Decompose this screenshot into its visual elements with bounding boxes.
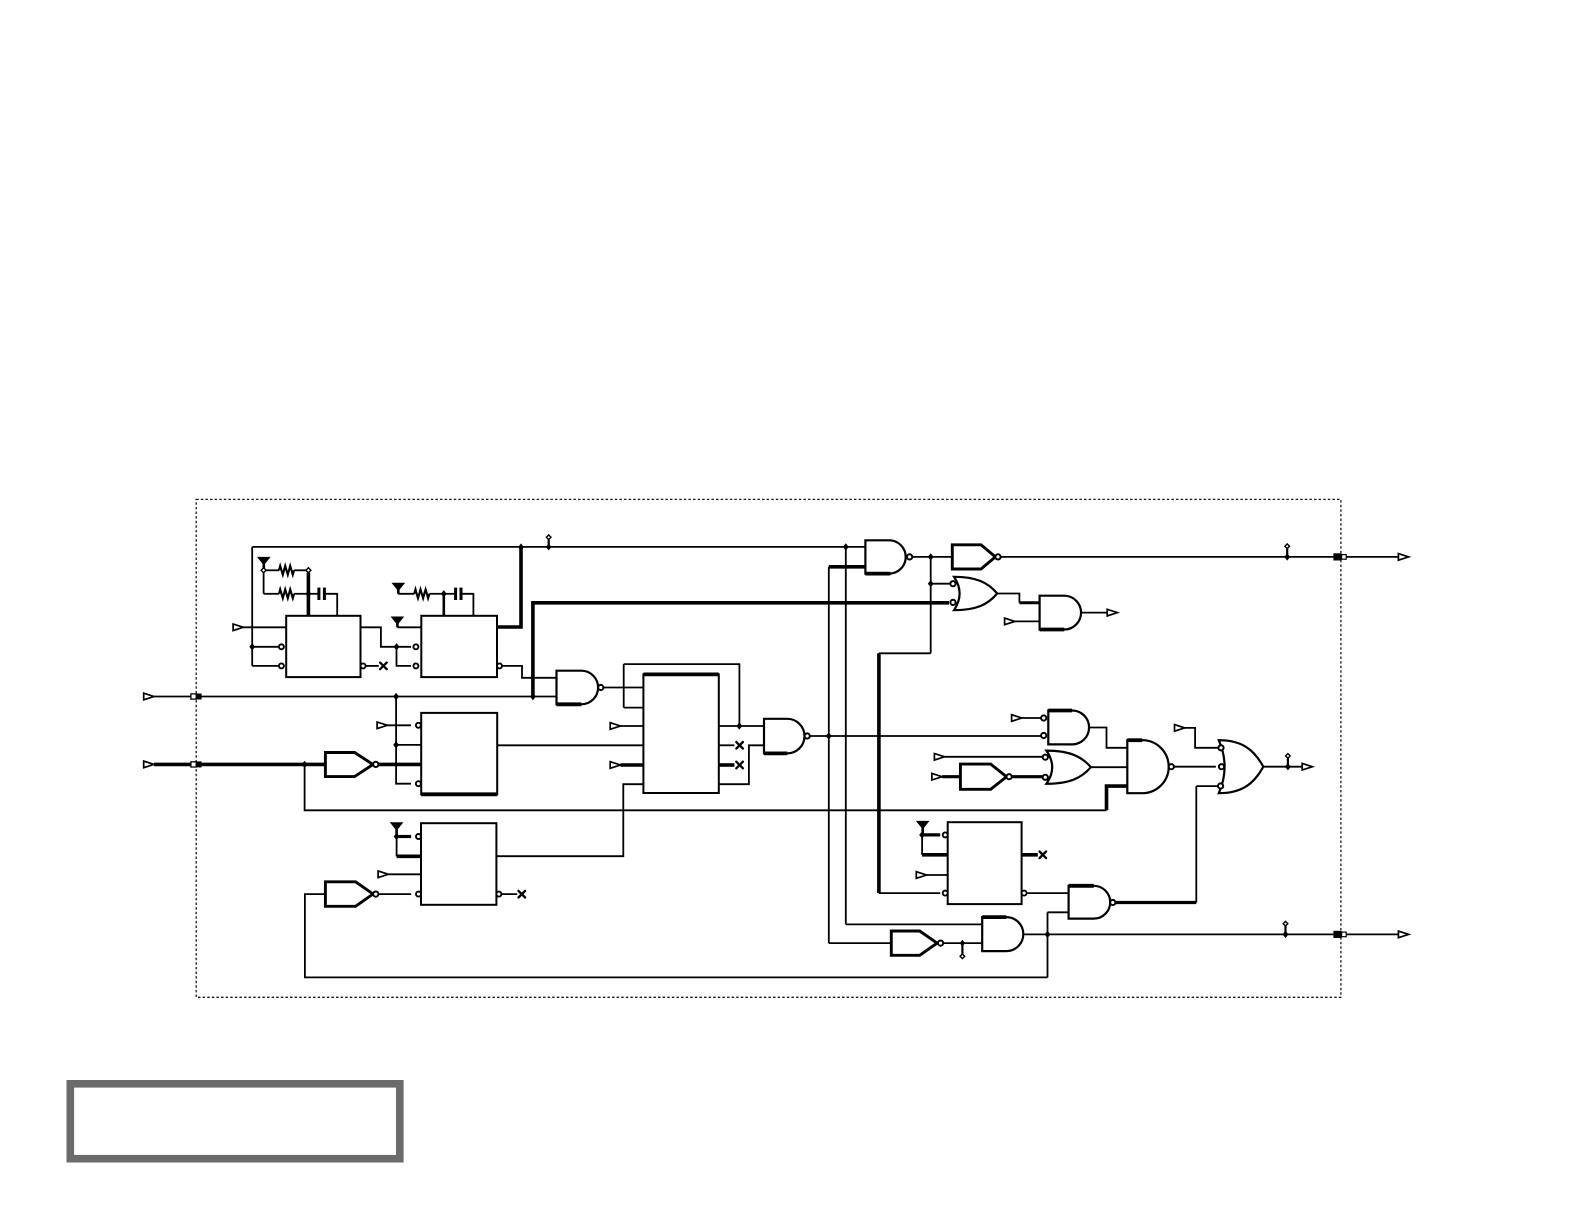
buffer TB1 on net B — [325, 753, 373, 777]
bubble NOR2 in1 — [1043, 755, 1048, 760]
or OR3 body — [1219, 740, 1264, 793]
wire arrow to U5 clk — [388, 873, 421, 875]
junction net A at x533 — [530, 693, 536, 700]
wire vertical C (thick) — [877, 653, 881, 893]
nand G2 body — [865, 540, 905, 573]
wire G4 out to N5 in1 — [1089, 728, 1127, 748]
output arrow top right — [1398, 554, 1408, 561]
and A1 body — [1040, 596, 1081, 630]
node pin right of R1 — [306, 568, 311, 573]
pin bubble U3 in1 — [416, 723, 421, 728]
wire top output outside — [1346, 556, 1398, 558]
junction U1 Q split — [394, 643, 400, 650]
junction output stub top — [1284, 553, 1290, 560]
wire U4 out-x2 (thick) — [719, 763, 735, 767]
wire arrow to U3 pin1 — [387, 724, 411, 726]
output arrow middle right — [1302, 763, 1312, 770]
wire U3 output to U4 — [497, 744, 643, 746]
buffer TB5 — [325, 882, 373, 907]
nor NOR1 body — [954, 577, 997, 610]
wire bottom output outside — [1346, 933, 1398, 935]
input arrow net A — [144, 693, 154, 700]
bubble N6 output — [1110, 900, 1115, 905]
capacitor C1 — [319, 588, 325, 600]
wire G2 net jog — [879, 652, 931, 654]
wire R3 left lead — [398, 593, 414, 595]
wire net A riser to thick bus (thick) — [533, 603, 949, 697]
input arrow U6 clock — [916, 872, 926, 879]
wire U4 out-x1 — [719, 744, 735, 746]
no-connect x U5 out2 — [519, 891, 526, 898]
wire R1 right lead — [294, 569, 306, 571]
boundary pin top output — [1333, 553, 1346, 560]
schematic boundary (dashed) — [196, 499, 1341, 997]
input arrow TB3 — [932, 773, 942, 780]
wire feedback net — [305, 894, 1048, 977]
wire U5 output rise to U4 pin5 — [496, 784, 643, 856]
wire vertical B to A2 in1 — [846, 923, 982, 925]
output arrow A1 — [1107, 609, 1117, 616]
junction net B split — [302, 761, 308, 768]
wire U4 wrap top — [624, 664, 740, 726]
wire NOR2 out to N5 in2 — [1091, 766, 1127, 768]
input arrow net B — [144, 761, 154, 768]
input arrow U5 clock — [378, 871, 388, 878]
bubble N5 output — [1169, 764, 1174, 769]
no-connect x U1 out2 — [380, 663, 387, 670]
wire to U5 pin2 (thick) — [397, 854, 421, 858]
wire R2 right lead — [294, 593, 308, 595]
wire U6 Qbar to N6 in1 — [1027, 892, 1069, 894]
junction G2 out to NOR1 — [928, 580, 934, 587]
wire R1 left lead — [266, 569, 279, 571]
wire net B outside (thick) — [154, 763, 191, 767]
wire power drop to U6 pin2 — [921, 835, 923, 855]
net stub on A2 in2 — [960, 940, 965, 959]
pin bubble U5 in1 — [416, 834, 421, 839]
wire A1 output — [1081, 612, 1108, 614]
wire U2 Q up to top net (thick) — [497, 547, 521, 627]
power symbol for R1 — [258, 557, 270, 570]
wire U4 out4 to G3 in2 — [719, 745, 764, 784]
power symbol U5 — [391, 823, 403, 837]
wire net B rise to N5 in3 (thick) — [1107, 786, 1128, 810]
buffer TB4 — [891, 931, 937, 955]
wire power to U2 pin1 — [397, 626, 421, 628]
wire branch to U1 pin2 — [252, 646, 279, 648]
buffer TB3 — [960, 764, 1006, 789]
and A2 body — [982, 917, 1023, 951]
wire U4 wrap lower entry — [624, 707, 644, 709]
power symbol U2 pin1 — [392, 617, 404, 627]
wire arrow to TB3 (thick) — [942, 775, 960, 778]
junction U6 power node — [919, 831, 925, 838]
wire U5 out2 to x — [501, 893, 517, 895]
bubble G4 in2 — [1041, 733, 1046, 738]
no-connect x U4 out2 — [736, 742, 743, 749]
wire U1 Q to U2 pin3 — [397, 647, 412, 666]
nand G3 body — [764, 719, 805, 754]
counter U4 — [643, 674, 718, 793]
nand N5 body — [1127, 740, 1168, 793]
nand G1 body — [557, 671, 599, 705]
nand N6 body — [1069, 886, 1111, 919]
annotation box (gray) — [70, 1084, 400, 1159]
pin bubble U6 Qbar — [1022, 891, 1027, 896]
wire power to U5 pin1 (thick) — [397, 835, 412, 838]
node pin left of R1 — [261, 568, 266, 573]
power symbol for R3 — [393, 583, 405, 594]
pin bubble U1 in3 — [279, 663, 284, 668]
wire net A drop to U3 pin4 — [396, 745, 411, 784]
input arrow A1 in2 — [1005, 618, 1015, 625]
wire to NOR1 in1 — [931, 583, 951, 585]
wire N6 in2 — [1048, 911, 1069, 913]
wire vertical A — [828, 567, 830, 943]
pin bubble U2 in3 — [413, 663, 418, 668]
junction A2 out feedback — [1045, 931, 1051, 938]
junction G3 out to vertical A — [826, 732, 832, 739]
wire power to U6 pin1 (thick) — [922, 833, 940, 836]
wire OR3 output — [1263, 766, 1302, 768]
junction G2 out split — [928, 553, 934, 560]
pin bubble U5 in4 — [416, 892, 421, 897]
wire TB1 out to U3 (thick) — [378, 763, 421, 767]
wire G2 out drop — [930, 557, 932, 653]
junction top-left branch — [249, 643, 255, 650]
wire arrow to OR3 in1 — [1185, 728, 1219, 748]
bubble G1 output — [598, 685, 603, 690]
bubble TB5 output — [373, 892, 378, 897]
bubble TB3 output — [1007, 774, 1012, 779]
junction net A at x396 — [393, 693, 399, 700]
wire arrow to U4 pin4 (thick) — [620, 763, 643, 767]
wire arrow to U1 clk — [243, 626, 286, 628]
wire vertical B drop — [845, 547, 847, 925]
wire arrow to G4 in1 — [1022, 717, 1041, 719]
wire vertical A to TB4 input — [829, 942, 892, 944]
pin bubble U6 in3 — [943, 891, 948, 896]
resistor R2 — [279, 589, 294, 598]
wire RC2 node to C2 — [444, 593, 455, 595]
wire C1 to U1 top — [326, 594, 337, 616]
wire power drop to U5 pin2 — [396, 837, 398, 857]
junction top net to vertical B — [843, 543, 849, 550]
no-connect x U6 out1 — [1040, 852, 1047, 859]
wire NOR1 to A1 in1 (thick) — [1019, 601, 1039, 604]
wire vertical A to G2 in2 (thick) — [829, 565, 866, 569]
wire U1 Q to U2 inputs — [361, 627, 412, 647]
wire RC2 node into U2 top — [442, 594, 445, 616]
wire vertical C to U6 in3 — [879, 892, 940, 894]
net stub on bottom output — [1283, 921, 1288, 937]
wire G3 out bus — [810, 735, 1041, 737]
bubble TB4 output — [938, 941, 943, 946]
capacitor C2 — [456, 588, 461, 600]
input arrow NOR2 in1 — [934, 754, 944, 761]
bubble G2 output — [907, 554, 912, 559]
wire arrow to U6 clk — [927, 874, 948, 876]
power symbol U6 — [917, 821, 929, 835]
wire net A outside — [154, 696, 191, 698]
net stub on top output — [1285, 544, 1290, 560]
bubble OR3 in3 — [1218, 783, 1223, 788]
junction output stub bottom — [1283, 931, 1289, 938]
input arrow U4 pin2 — [610, 723, 620, 730]
wire arrow to NOR2 in1 — [945, 756, 1043, 758]
input arrow U3 pin1 — [377, 722, 387, 729]
wire R2 left lead — [264, 593, 279, 595]
wire TB3 out to NOR2 in2 (thick) — [1012, 775, 1043, 778]
wire U2 Qbar to G1 in1 — [502, 666, 557, 678]
wire G1 out to U4 in1 — [603, 687, 643, 689]
wire A2 output to boundary — [1023, 933, 1333, 935]
flip-flop U2 — [421, 616, 497, 677]
junction U4 out1 — [736, 722, 742, 729]
junction U5 power node — [394, 833, 400, 840]
wire net A drop to U3 pin2 — [396, 697, 421, 745]
wire riser N6-out to OR3 in3 — [1195, 786, 1197, 902]
output arrow bottom right — [1398, 931, 1408, 938]
wire to U6 pin2 (thick) — [922, 853, 948, 857]
input arrow U1 clock — [233, 624, 243, 631]
bubble G4 in1 — [1041, 715, 1046, 720]
wire U1 out2 to x — [366, 665, 379, 667]
resistor R3 — [414, 589, 429, 598]
flip-flop U5 — [421, 823, 496, 905]
wire branch to U1 pin3 — [252, 665, 279, 667]
nor NOR2 body — [1046, 751, 1091, 784]
wire R3 right lead — [429, 593, 443, 595]
net stub on top wire — [546, 535, 551, 551]
bubble TB2 output — [995, 554, 1000, 559]
net stub on OR3 output — [1285, 754, 1290, 771]
wire N6 out to riser (thick) — [1115, 901, 1196, 904]
wire arrow to U4 pin2 — [620, 725, 643, 727]
wire U4 wrap vertical — [623, 664, 625, 708]
no-connect x U4 out3 — [736, 762, 743, 769]
input arrow U4 pin4 — [610, 762, 620, 769]
wire net B lower branch — [305, 764, 1107, 810]
wire TB2 out to boundary — [1001, 556, 1334, 558]
pin bubble U2 in2 — [413, 644, 418, 649]
wire RC1 node to C1 — [308, 593, 318, 595]
bubble OR3 in2 — [1219, 764, 1224, 769]
wire G2 out to TB2 — [912, 556, 952, 558]
input arrow G4 in1 — [1012, 715, 1022, 722]
junction RC2 node — [441, 590, 447, 597]
boundary pin net A — [191, 694, 202, 700]
wire top net left drop — [251, 547, 253, 666]
junction OR3 out stub — [1285, 763, 1291, 770]
pin bubble U3 in4 — [416, 781, 421, 786]
wire U4 out1 to G3 in1 — [719, 725, 764, 727]
pin bubble U1 out2 — [361, 663, 366, 668]
wire OR3 in3 horizontal — [1196, 785, 1218, 787]
boundary pin net B — [191, 761, 202, 767]
wire NOR1 out jog — [997, 594, 1019, 603]
wire arrow to A1 in2 — [1015, 620, 1040, 622]
pin bubble U2 Qbar — [497, 663, 502, 668]
pin bubble U6 in1 — [943, 832, 948, 837]
junction U2 Q riser on top net — [518, 543, 524, 550]
junction U3 pin2 — [393, 741, 399, 748]
wire RC1 node into U1 top (thick) — [307, 573, 311, 616]
wire TB4 out to A2 in2 — [943, 942, 982, 944]
wire U6 out-x (thick) — [1022, 853, 1038, 857]
bubble G3 output — [805, 733, 810, 738]
flip-flop U1 — [286, 616, 360, 677]
latch U3 — [421, 713, 497, 794]
bubble NOR2 in2 — [1043, 775, 1048, 780]
wire N5 out to OR3 in2 — [1174, 766, 1216, 768]
and-inv G4 body — [1048, 711, 1089, 745]
buffer TB2 — [952, 545, 995, 569]
input arrow OR3 in1 — [1175, 725, 1185, 732]
junction RC1 node — [306, 590, 312, 597]
flip-flop U6 — [948, 822, 1022, 904]
boundary pin bottom output — [1333, 931, 1346, 938]
pin bubble U5 out2 — [496, 892, 501, 897]
bubble OR3 in1 — [1218, 745, 1223, 750]
wire net A inside — [202, 696, 557, 698]
pin bubble U1 in2 — [279, 644, 284, 649]
bubble TB1 output — [373, 762, 378, 767]
resistor R1 — [279, 566, 294, 575]
wire riser junction to N6 in2 — [1047, 912, 1049, 977]
wire TB5 out to U5 pin4 — [378, 893, 411, 895]
bubble NOR1 in1 — [950, 581, 955, 586]
bubble NOR1 in2 — [950, 600, 955, 605]
wire net B inside (thick) — [202, 763, 326, 767]
wire diamond down to R2 level — [263, 573, 265, 594]
wire C2 to U2 top — [462, 594, 473, 616]
wire top net horizontal — [252, 546, 865, 548]
